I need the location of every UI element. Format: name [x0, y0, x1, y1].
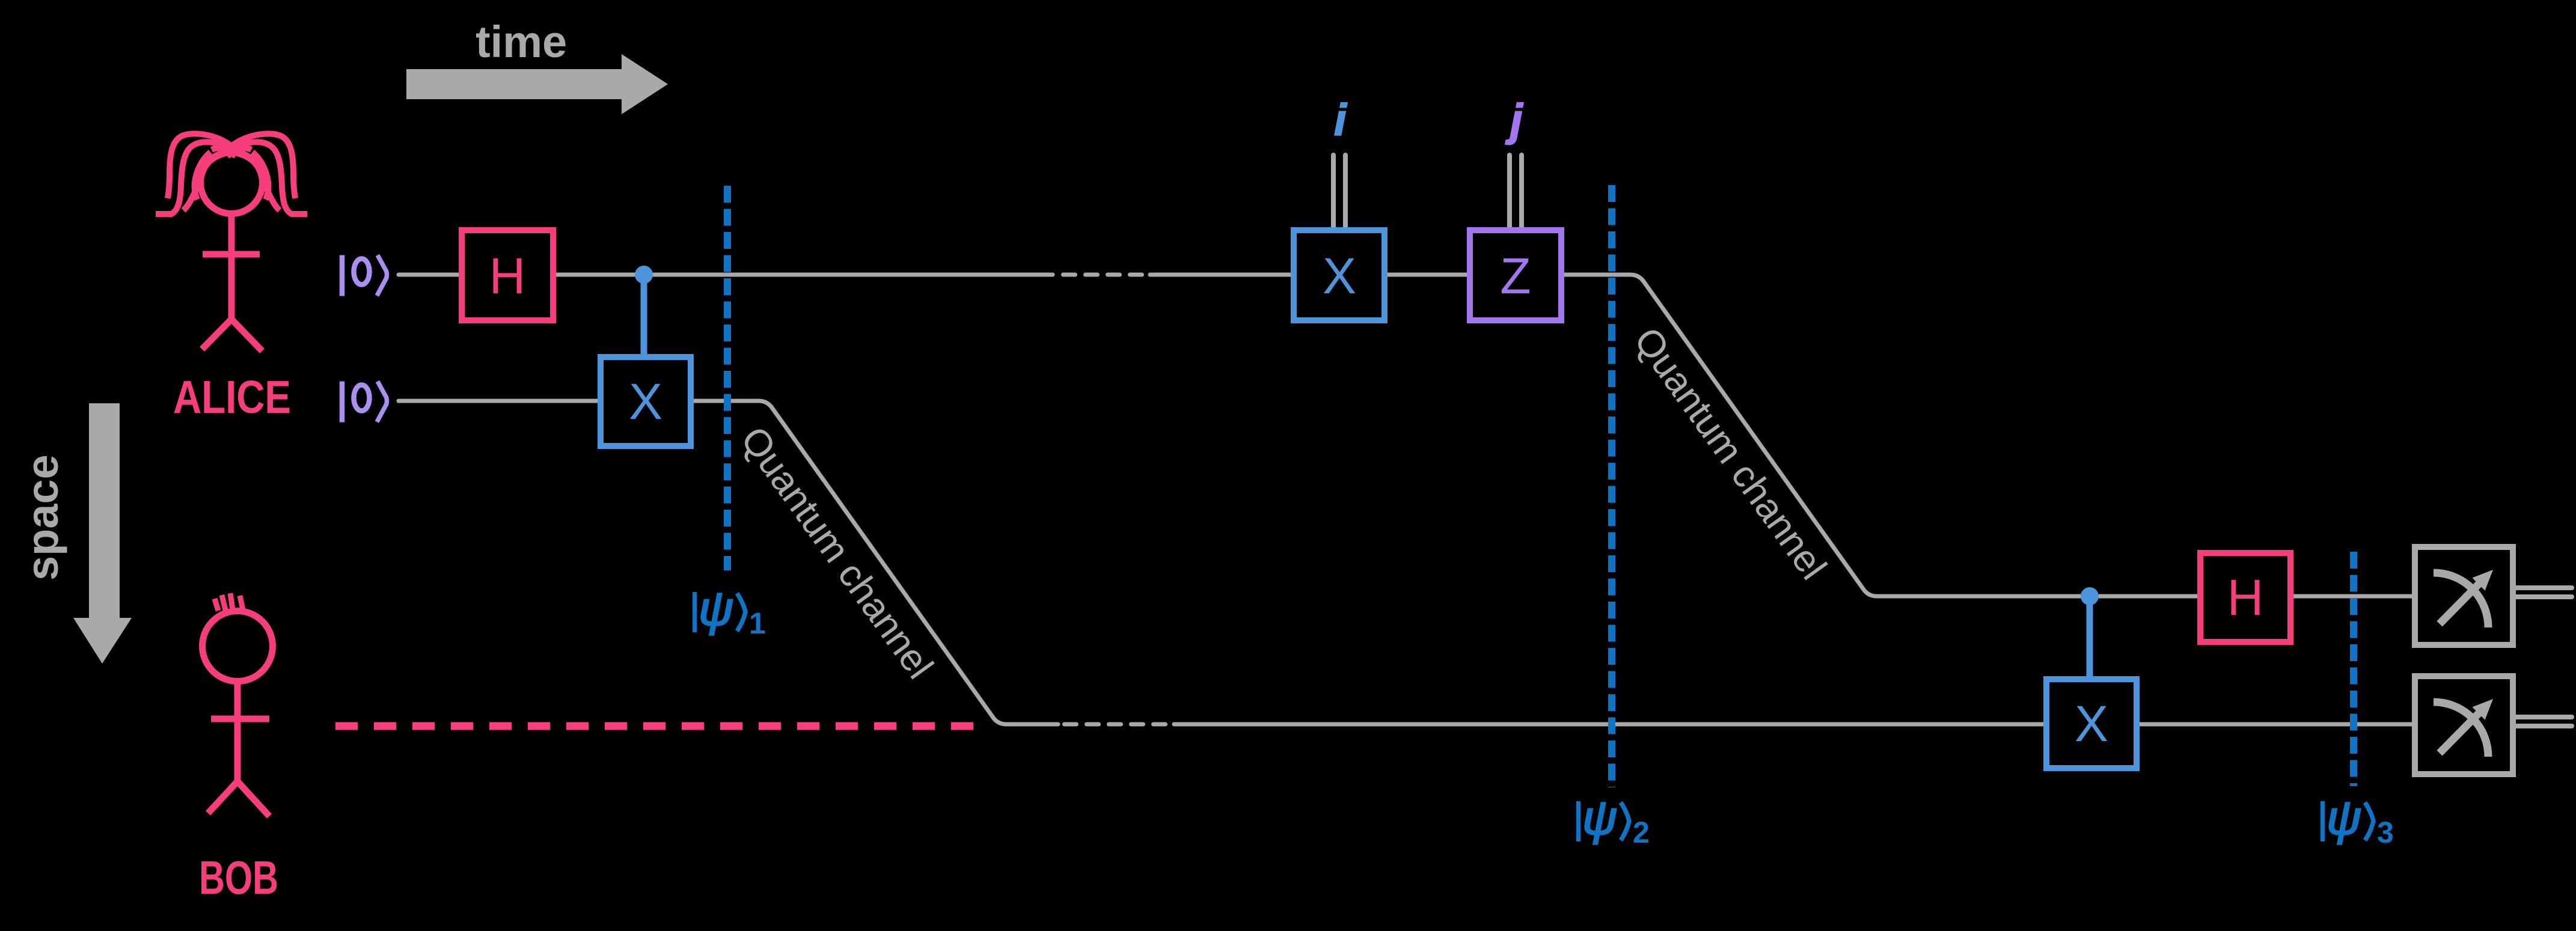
- wire qubit 1 (Alice top line, solid then dotted gap then solid): [399, 273, 1467, 277]
- gate X1 (CNOT target, Alice qubit 2): [601, 357, 691, 446]
- classical double wire out of M1: [2515, 588, 2572, 597]
- wire qubit 2 (Alice second line, bend down via quantum channel 1 to Bob row): [399, 401, 1058, 724]
- svg-text:2: 2: [1633, 816, 1650, 849]
- svg-text:space: space: [17, 454, 67, 581]
- svg-text:3: 3: [2377, 816, 2394, 849]
- label |psi>1: [693, 582, 745, 635]
- space axis arrow: [73, 403, 132, 664]
- CNOT control dot 2 (Bob side): [2087, 596, 2093, 676]
- svg-text:H: H: [489, 248, 526, 304]
- hair left: [156, 133, 231, 214]
- svg-text:H: H: [2227, 569, 2264, 626]
- person BOB (stick figure): [203, 593, 273, 816]
- svg-text:X: X: [1323, 248, 1356, 304]
- measurement M1 (top): [2415, 547, 2513, 645]
- svg-text:X: X: [2075, 695, 2108, 752]
- hair spikes: [215, 593, 243, 611]
- person ALICE (stick figure with pigtails): [156, 133, 307, 351]
- svg-text:Z: Z: [1500, 248, 1531, 304]
- hair right: [231, 133, 307, 214]
- svg-text:1: 1: [749, 606, 766, 640]
- CNOT control dot 1: [641, 275, 647, 354]
- wire qubit 1: bend + diagonal (quantum channel 2) + lower horizontal: [1564, 275, 2412, 596]
- gate Z (correction Z): [1470, 230, 1561, 320]
- ket |0> qubit 1: [342, 255, 387, 296]
- svg-text:i: i: [1334, 95, 1347, 145]
- time axis arrow: [406, 54, 668, 114]
- barrier |psi>3 (blue dashed): [2350, 552, 2357, 786]
- label |psi>3: [2321, 791, 2373, 844]
- svg-text:ALICE: ALICE: [173, 371, 291, 423]
- barrier |psi>2 (blue dashed): [1608, 185, 1615, 787]
- gate X3 (Bob CNOT target): [2046, 679, 2137, 768]
- svg-text:X: X: [629, 373, 662, 430]
- classical double wire for i: [1333, 155, 1345, 227]
- gate H1 (Hadamard, Alice qubit 1): [462, 230, 553, 320]
- svg-text:time: time: [476, 17, 567, 67]
- label |psi>2: [1576, 791, 1629, 844]
- Bob classical rest line (pink dashed): [335, 722, 975, 730]
- ket |0> qubit 2: [342, 382, 387, 423]
- gate H2 (Bob Hadamard): [2200, 553, 2290, 642]
- svg-text:ψ: ψ: [699, 582, 733, 635]
- barrier |psi>1 (blue dashed): [724, 186, 731, 570]
- measurement M2 (bottom): [2415, 676, 2513, 774]
- classical double wire for j: [1510, 155, 1522, 227]
- classical double wire out of M2: [2515, 717, 2572, 726]
- gate X2 (correction X, Alice qubit 1): [1294, 230, 1384, 320]
- svg-text:BOB: BOB: [199, 851, 278, 904]
